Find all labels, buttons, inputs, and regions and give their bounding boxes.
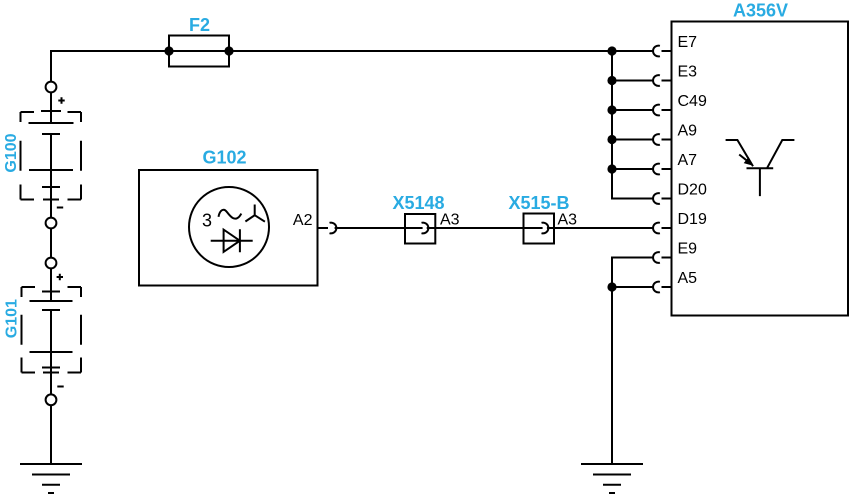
- svg-text:E7: E7: [678, 34, 698, 51]
- svg-text:3: 3: [202, 211, 212, 231]
- svg-text:A3: A3: [440, 212, 460, 229]
- svg-text:A356V: A356V: [733, 1, 788, 21]
- svg-text:G100: G100: [3, 133, 20, 172]
- svg-text:D20: D20: [678, 182, 707, 199]
- svg-text:C49: C49: [678, 93, 707, 110]
- svg-text:F2: F2: [189, 15, 210, 35]
- svg-text:E3: E3: [678, 64, 698, 81]
- svg-text:A3: A3: [558, 212, 578, 229]
- svg-text:A9: A9: [678, 123, 698, 140]
- svg-text:A2: A2: [293, 212, 313, 229]
- svg-text:G101: G101: [4, 299, 21, 338]
- svg-text:E9: E9: [678, 241, 698, 258]
- svg-text:X515-B: X515-B: [508, 193, 569, 213]
- svg-text:G102: G102: [202, 148, 246, 168]
- svg-text:X5148: X5148: [392, 193, 444, 213]
- svg-text:A5: A5: [678, 270, 698, 287]
- svg-text:D19: D19: [678, 211, 707, 228]
- svg-text:A7: A7: [678, 152, 698, 169]
